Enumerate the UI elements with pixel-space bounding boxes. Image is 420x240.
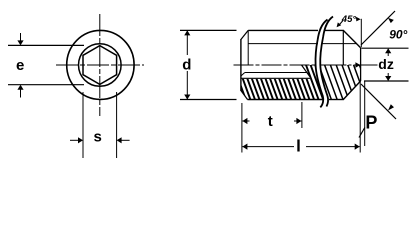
45 degree leader arrow [355, 17, 360, 22]
left view chamfer circle [79, 44, 122, 87]
dimension e extension line bottom [8, 84, 84, 86]
dimension s extension line right [116, 92, 118, 158]
centerline arrowhead at end face [355, 62, 360, 68]
chamfer junction vertical edge [247, 30, 249, 65]
svg-text:e: e [16, 57, 24, 74]
chamfer circle edge line [248, 43, 318, 45]
90 degree upper leader line [361, 11, 395, 45]
svg-text:t: t [268, 113, 273, 130]
dimension l right extension line [359, 82, 361, 153]
left view outer circle (major diameter) [67, 30, 134, 99]
side view left face [240, 39, 242, 91]
left view vertical centerline [99, 14, 101, 116]
dimension d line with arrows [184, 30, 190, 99]
hex socket hexagon [83, 46, 117, 85]
90 degree upper arrowhead [388, 18, 394, 23]
socket end cone edge [302, 65, 312, 78]
svg-text:dz: dz [378, 56, 394, 72]
dimension d extension line top [180, 29, 237, 31]
dimension l line right part with arrow [306, 144, 360, 150]
dimension e top arrow [17, 33, 23, 45]
dimension dz extension line top [362, 47, 409, 49]
svg-text:l: l [296, 137, 301, 156]
left face bottom chamfer [241, 91, 248, 100]
point bottom chamfer [343, 81, 360, 100]
dimension P oblique stroke [359, 128, 365, 138]
dimension t right extension line [301, 102, 303, 128]
dimension s right arrow [117, 137, 130, 143]
dimension dz extension line bottom [364, 80, 409, 82]
svg-text:45°: 45° [341, 14, 357, 25]
left face top chamfer [241, 30, 248, 39]
side view centerline [234, 64, 317, 66]
left view horizontal centerline [56, 64, 144, 66]
section hatching right of break [311, 60, 390, 101]
break line left curve [315, 20, 327, 108]
dimension dz bottom arrow [385, 73, 391, 81]
dimension t right arrow [294, 118, 301, 124]
point top chamfer [343, 30, 360, 47]
side view bottom edge [248, 99, 323, 101]
90 degree lower leader line [361, 84, 396, 119]
dimension dz top arrow [385, 48, 391, 56]
45 degree left tick arrow [337, 21, 343, 28]
svg-text:d: d [182, 56, 191, 73]
90 degree lower arrowhead [388, 104, 394, 110]
svg-text:90°: 90° [389, 28, 407, 42]
dimension l line left part with arrow [242, 144, 294, 150]
dimension s left arrow [70, 137, 83, 143]
dimension t left arrow [242, 118, 249, 124]
socket hex corner edge line [245, 72, 307, 74]
socket bottom wall line [241, 77, 311, 79]
45 degree extension line [360, 19, 362, 48]
break line right curve [320, 17, 333, 107]
svg-text:s: s [94, 128, 102, 145]
svg-text:P: P [365, 113, 377, 133]
section hatching left of break [231, 60, 351, 101]
dimension d extension line bottom [180, 99, 237, 101]
dimension e bottom arrow [17, 85, 23, 98]
point end face [360, 48, 362, 81]
point junction vertical edge [342, 30, 344, 65]
side view top edge [248, 29, 318, 31]
dimension s extension line left [82, 92, 84, 158]
socket mouth chamfer [241, 73, 245, 77]
dimension P right extension line [364, 81, 366, 146]
dimension t left extension line (shared with l) [241, 103, 243, 153]
dimension e extension line top [8, 44, 84, 46]
